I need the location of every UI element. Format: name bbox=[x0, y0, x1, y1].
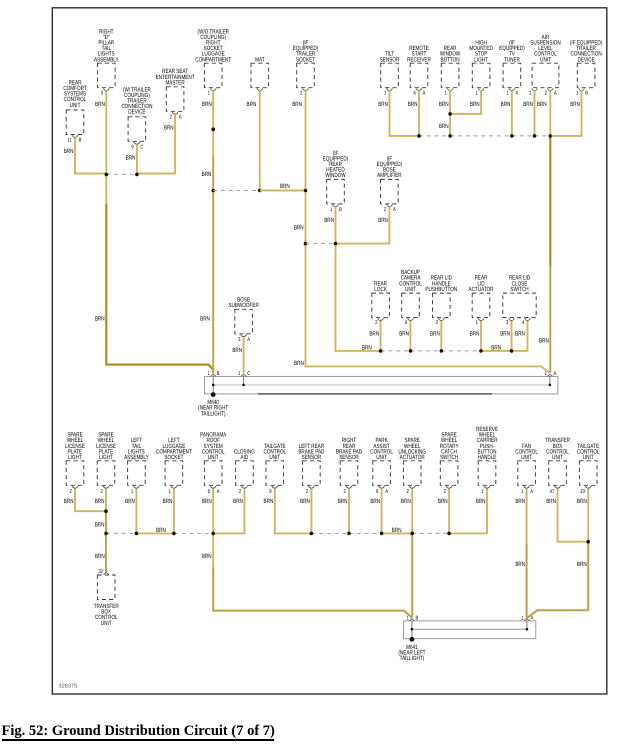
svg-text:BRN: BRN bbox=[163, 498, 173, 505]
svg-text:BRN: BRN bbox=[430, 330, 440, 337]
svg-text:BRN: BRN bbox=[470, 330, 480, 337]
svg-text:9: 9 bbox=[269, 489, 271, 495]
svg-text:SOCKET: SOCKET bbox=[296, 56, 315, 63]
svg-text:1: 1 bbox=[445, 91, 447, 97]
svg-text:3: 3 bbox=[238, 337, 240, 343]
svg-text:ACTUATOR: ACTUATOR bbox=[400, 454, 425, 461]
svg-text:2: 2 bbox=[170, 115, 172, 121]
svg-text:BRN: BRN bbox=[362, 344, 372, 351]
svg-text:BRN: BRN bbox=[523, 101, 533, 108]
svg-text:LOCK: LOCK bbox=[374, 286, 387, 293]
svg-text:1: 1 bbox=[330, 207, 332, 213]
svg-text:2: 2 bbox=[69, 489, 71, 495]
svg-text:SWITCH: SWITCH bbox=[510, 286, 528, 293]
svg-text:11: 11 bbox=[67, 138, 71, 144]
svg-text:SUBWOOFER: SUBWOOFER bbox=[228, 302, 259, 309]
svg-text:BRN: BRN bbox=[202, 101, 212, 108]
svg-text:BRN: BRN bbox=[570, 101, 580, 108]
svg-text:1: 1 bbox=[521, 489, 523, 495]
svg-text:BRN: BRN bbox=[338, 498, 348, 505]
svg-text:LIGHT: LIGHT bbox=[68, 454, 82, 461]
svg-text:TUNER: TUNER bbox=[504, 56, 520, 63]
svg-text:A: A bbox=[554, 91, 557, 97]
svg-text:1: 1 bbox=[529, 91, 531, 97]
svg-text:BRN: BRN bbox=[202, 553, 212, 560]
svg-text:BRN: BRN bbox=[370, 498, 380, 505]
svg-text:6: 6 bbox=[208, 489, 210, 495]
svg-text:1: 1 bbox=[131, 489, 133, 495]
svg-text:1: 1 bbox=[576, 91, 578, 97]
svg-text:23: 23 bbox=[580, 489, 585, 495]
svg-text:1: 1 bbox=[208, 91, 210, 97]
svg-text:BRN: BRN bbox=[399, 330, 409, 337]
svg-text:BRN: BRN bbox=[164, 125, 174, 132]
svg-text:BRN: BRN bbox=[378, 101, 388, 108]
svg-text:BRN: BRN bbox=[515, 561, 525, 568]
svg-text:3: 3 bbox=[506, 320, 508, 326]
svg-text:BRN: BRN bbox=[537, 101, 547, 108]
svg-text:2: 2 bbox=[375, 320, 377, 326]
svg-text:1: 1 bbox=[476, 91, 478, 97]
svg-text:328375: 328375 bbox=[59, 684, 78, 690]
svg-text:BRN: BRN bbox=[95, 521, 105, 528]
svg-text:BRN: BRN bbox=[408, 101, 418, 108]
svg-text:DEVICE: DEVICE bbox=[128, 109, 145, 116]
svg-text:BRN: BRN bbox=[64, 498, 74, 505]
svg-text:UNIT: UNIT bbox=[405, 286, 416, 293]
svg-text:TAILLIGHT): TAILLIGHT) bbox=[201, 410, 226, 417]
svg-text:ASSEMBLY: ASSEMBLY bbox=[124, 454, 149, 461]
svg-text:BRN: BRN bbox=[125, 498, 135, 505]
svg-text:PUSHBUTTON: PUSHBUTTON bbox=[425, 286, 457, 293]
svg-text:BRN: BRN bbox=[546, 498, 556, 505]
svg-text:BRN: BRN bbox=[378, 217, 388, 224]
svg-text:1: 1 bbox=[521, 616, 523, 622]
svg-text:1: 1 bbox=[238, 371, 240, 377]
svg-text:MAT: MAT bbox=[255, 56, 265, 63]
svg-text:UNIT: UNIT bbox=[101, 620, 112, 627]
svg-text:TAILLIGHT): TAILLIGHT) bbox=[400, 655, 425, 662]
svg-text:BRN: BRN bbox=[95, 553, 105, 560]
svg-text:BRN: BRN bbox=[294, 225, 304, 232]
svg-text:WINDOW: WINDOW bbox=[325, 172, 346, 179]
svg-text:BRN: BRN bbox=[439, 123, 449, 130]
svg-text:BRN: BRN bbox=[95, 498, 105, 505]
svg-text:LIGHT: LIGHT bbox=[99, 454, 113, 461]
svg-text:B: B bbox=[217, 371, 220, 377]
svg-text:2: 2 bbox=[100, 489, 102, 495]
svg-text:B: B bbox=[79, 138, 82, 144]
svg-text:BRN: BRN bbox=[369, 330, 379, 337]
svg-text:47: 47 bbox=[550, 489, 555, 495]
svg-text:2: 2 bbox=[384, 207, 386, 213]
svg-text:BRN: BRN bbox=[439, 101, 449, 108]
svg-text:MASTER: MASTER bbox=[165, 79, 185, 86]
svg-text:SENSOR: SENSOR bbox=[380, 56, 400, 63]
svg-text:UNIT: UNIT bbox=[208, 454, 219, 461]
svg-text:A: A bbox=[554, 371, 557, 377]
svg-text:BRN: BRN bbox=[476, 498, 486, 505]
svg-text:BRN: BRN bbox=[438, 498, 448, 505]
svg-text:BRN: BRN bbox=[156, 527, 166, 534]
svg-text:BRN: BRN bbox=[470, 101, 480, 108]
svg-text:BRN: BRN bbox=[539, 337, 549, 344]
svg-text:RECEIVER: RECEIVER bbox=[407, 56, 431, 63]
svg-text:1: 1 bbox=[384, 91, 386, 97]
svg-text:6: 6 bbox=[405, 320, 407, 326]
svg-text:BRN: BRN bbox=[247, 101, 257, 108]
svg-text:2: 2 bbox=[306, 489, 308, 495]
svg-text:BRN: BRN bbox=[324, 217, 334, 224]
svg-text:A: A bbox=[516, 91, 519, 97]
svg-text:2: 2 bbox=[444, 489, 446, 495]
svg-text:6: 6 bbox=[413, 91, 415, 97]
svg-text:DEVICE: DEVICE bbox=[577, 56, 594, 63]
svg-text:UNIT: UNIT bbox=[269, 454, 280, 461]
svg-text:BRN: BRN bbox=[64, 148, 74, 155]
svg-text:2: 2 bbox=[300, 91, 302, 97]
svg-text:LIGHT: LIGHT bbox=[474, 56, 488, 63]
svg-text:BUTTON: BUTTON bbox=[441, 56, 460, 63]
svg-text:ACTUATOR: ACTUATOR bbox=[468, 286, 493, 293]
svg-text:1: 1 bbox=[168, 489, 170, 495]
svg-text:HANDLE: HANDLE bbox=[478, 454, 497, 461]
svg-text:BRN: BRN bbox=[232, 347, 242, 354]
svg-text:BRN: BRN bbox=[292, 101, 302, 108]
svg-text:UNIT: UNIT bbox=[70, 102, 81, 109]
svg-text:2: 2 bbox=[545, 91, 547, 97]
svg-text:BRN: BRN bbox=[577, 561, 587, 568]
svg-text:2: 2 bbox=[343, 489, 345, 495]
svg-text:A: A bbox=[385, 489, 388, 495]
svg-text:B: B bbox=[416, 616, 419, 622]
svg-text:C: C bbox=[247, 371, 250, 377]
svg-text:C: C bbox=[141, 144, 144, 150]
svg-text:AMPLIFIER: AMPLIFIER bbox=[377, 172, 402, 179]
svg-text:A: A bbox=[247, 337, 250, 343]
svg-text:BRN: BRN bbox=[294, 360, 304, 367]
svg-text:UNIT: UNIT bbox=[583, 454, 594, 461]
svg-text:BRN: BRN bbox=[95, 101, 105, 108]
svg-text:1: 1 bbox=[481, 489, 483, 495]
svg-text:A: A bbox=[217, 489, 220, 495]
svg-text:SOCKET: SOCKET bbox=[164, 454, 183, 461]
svg-text:BRN: BRN bbox=[280, 183, 290, 190]
svg-text:A: A bbox=[393, 207, 396, 213]
svg-text:1: 1 bbox=[406, 616, 408, 622]
svg-text:1: 1 bbox=[506, 91, 508, 97]
svg-text:32: 32 bbox=[98, 569, 103, 575]
svg-text:A: A bbox=[179, 115, 182, 121]
svg-text:BRN: BRN bbox=[233, 498, 243, 505]
svg-text:AID: AID bbox=[241, 454, 249, 461]
svg-text:BRN: BRN bbox=[501, 101, 511, 108]
svg-text:UNIT: UNIT bbox=[376, 454, 387, 461]
svg-text:BRN: BRN bbox=[392, 527, 402, 534]
svg-text:BRN: BRN bbox=[401, 498, 411, 505]
svg-text:BRN: BRN bbox=[95, 316, 105, 323]
svg-text:B: B bbox=[339, 207, 342, 213]
svg-text:BRN: BRN bbox=[500, 330, 510, 337]
svg-text:2: 2 bbox=[239, 489, 241, 495]
svg-text:UNIT: UNIT bbox=[521, 454, 532, 461]
svg-text:UNIT: UNIT bbox=[552, 454, 563, 461]
svg-text:UNIT: UNIT bbox=[540, 56, 551, 63]
svg-text:BRN: BRN bbox=[515, 498, 525, 505]
svg-text:2: 2 bbox=[407, 489, 409, 495]
svg-text:BRN: BRN bbox=[200, 316, 210, 323]
svg-text:BRN: BRN bbox=[577, 498, 587, 505]
svg-text:1: 1 bbox=[544, 371, 546, 377]
svg-text:BRN: BRN bbox=[202, 171, 212, 178]
svg-text:SENSOR: SENSOR bbox=[302, 454, 322, 461]
svg-text:A: A bbox=[530, 489, 533, 495]
svg-text:BRN: BRN bbox=[515, 330, 525, 337]
svg-text:COMPARTMENT: COMPARTMENT bbox=[195, 56, 231, 63]
svg-text:9: 9 bbox=[131, 144, 133, 150]
svg-text:SENSOR: SENSOR bbox=[339, 454, 359, 461]
svg-text:BRN: BRN bbox=[300, 498, 310, 505]
svg-text:5: 5 bbox=[101, 91, 103, 97]
svg-text:A: A bbox=[423, 91, 426, 97]
svg-text:SWITCH: SWITCH bbox=[440, 454, 458, 461]
svg-text:ASSEMBLY: ASSEMBLY bbox=[94, 56, 119, 63]
svg-text:BRN: BRN bbox=[202, 498, 212, 505]
svg-text:1: 1 bbox=[475, 320, 477, 326]
svg-text:2: 2 bbox=[436, 320, 438, 326]
svg-text:8: 8 bbox=[376, 489, 378, 495]
svg-text:A: A bbox=[531, 616, 534, 622]
svg-text:BRN: BRN bbox=[491, 344, 501, 351]
svg-text:B: B bbox=[585, 91, 588, 97]
svg-text:1: 1 bbox=[208, 371, 210, 377]
svg-text:4: 4 bbox=[522, 320, 524, 326]
svg-text:BRN: BRN bbox=[126, 154, 136, 161]
svg-text:BRN: BRN bbox=[264, 498, 274, 505]
